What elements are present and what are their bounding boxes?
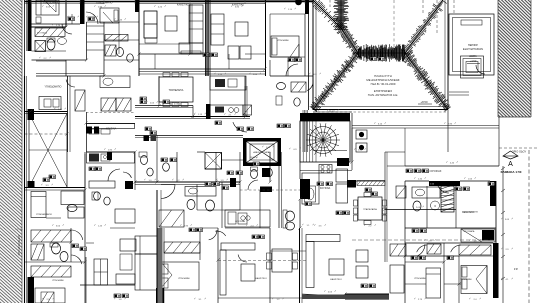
bed top-left: [36, 0, 59, 15]
shower top-left: [35, 41, 46, 52]
kitchen unit3 lower counter: [210, 105, 243, 117]
bottom-right unit: tub: [412, 187, 440, 198]
section marker A: [503, 151, 518, 159]
svg-text:+4.50: +4.50: [470, 59, 477, 63]
right boundary hatch band: [498, 0, 531, 117]
svg-text:A: A: [508, 161, 513, 168]
bathtub center: [185, 187, 216, 197]
loveseat unit3: [228, 46, 239, 59]
shower lower-left: [31, 244, 44, 260]
svg-text:ΕΞΩΤ ΕΡΓΑΣΙΩΝ: ΕΞΩΤ ΕΡΓΑΣΙΩΝ: [463, 47, 483, 51]
svg-text:20.05 μ²: 20.05 μ²: [250, 156, 258, 159]
bathtub top: [100, 76, 130, 88]
dark counter flecks unit below: [144, 136, 150, 142]
bed bottom-right-1: [426, 268, 441, 298]
svg-text:ΥΠΝΟΔΩΜ.: ΥΠΝΟΔΩΜ.: [414, 277, 426, 280]
dashed reference lines: [25, 133, 71, 135]
kitchen center counters: [87, 152, 135, 163]
sofa bottom-center-left: [135, 236, 157, 254]
svg-text:ΚΑΘΙΣΤΙΚΟ: ΚΑΘΙΣΤΙΚΟ: [462, 211, 474, 214]
vertical hatch wall strip: [158, 228, 163, 303]
hatch strip left-mid: [75, 90, 85, 111]
sofa unit3: [211, 14, 224, 45]
svg-text:ΠΕΡΙΦΡ.: ΠΕΡΙΦΡ.: [468, 43, 479, 47]
stair bulkhead on terrace: [449, 14, 494, 75]
table unit3: [235, 22, 248, 36]
table right of bottom-left: [120, 254, 132, 270]
washing items left of kitchen r: [286, 211, 295, 221]
hatch parallelogram bottom: [390, 244, 406, 256]
svg-text:ΥΠΝΟΔΩΜ.: ΥΠΝΟΔΩΜ.: [52, 279, 64, 282]
bath fixtures top-left unit: [47, 39, 55, 50]
hatch square mid-right: [396, 186, 406, 198]
svg-text:ΤΡΑΠΕΖΑΡΙΑ: ΤΡΑΠΕΖΑΡΙΑ: [363, 208, 377, 211]
svg-text:ΤΡΑΠΕΖΑΡΙΑ: ΤΡΑΠΕΖΑΡΙΑ: [169, 89, 184, 92]
glazing between units mid right: [302, 110, 304, 152]
svg-text:ΥΠΝΟΔΩΜ.: ΥΠΝΟΔΩΜ.: [277, 39, 289, 42]
svg-text:ΠΞΑ Β / 30-01-2009: ΠΞΑ Β / 30-01-2009: [371, 82, 396, 86]
seat bottom-left unit: [68, 207, 84, 218]
stairs top-right unit: [87, 25, 105, 27]
svg-text:1Ψ: 1Ψ: [514, 267, 519, 271]
bed top-mid: [271, 36, 299, 57]
svg-text:ΟΡΙΟ ΟΙΚΟΠΕΔΟΥ: ΟΡΙΟ ΟΙΚΟΠΕΔΟΥ: [18, 234, 21, 255]
corridor double walls center: [135, 137, 243, 139]
courtyard lines around elevator lobby: [221, 153, 223, 170]
shower unit2: [105, 45, 116, 56]
svg-text:ΥΠΝΟΔΩΜ.: ΥΠΝΟΔΩΜ.: [460, 278, 472, 281]
bed bottom-right-2: [461, 266, 487, 294]
top balcony rail lines: [139, 0, 313, 2]
svg-text:ΝΤΟΥΛΑΠΑ: ΝΤΟΥΛΑΠΑ: [37, 32, 48, 35]
terrace planters right of stair: [356, 130, 367, 139]
tag labels: [68, 17, 75, 21]
svg-text:ΚΑΘΙΣΤΙΚΟ: ΚΑΘΙΣΤΙΚΟ: [330, 278, 342, 281]
bottom-left closet wall: [70, 228, 72, 262]
wardrobe squares bottom-left: [94, 259, 108, 285]
big X lightwell left: [29, 114, 67, 188]
wc center: [251, 170, 258, 179]
bed bottom-center: [161, 262, 199, 290]
terrace long rails: [352, 125, 499, 127]
extra fixtures density center: [141, 156, 148, 165]
door arcs: [62, 24, 72, 34]
dashes top margin roof: [329, 0, 331, 8]
bottom-left unit bed: [31, 192, 46, 218]
svg-text:ΓΙΑΝ. ΑΝΤΩΝΑΤΟΣ Α.Ε.: ΓΙΑΝ. ΑΝΤΩΝΑΤΟΣ Α.Ε.: [368, 93, 399, 97]
svg-text:ΚΟΥΖΙΝΑ: ΚΟΥΖΙΝΑ: [320, 187, 331, 190]
interior walls: [65, 0, 67, 27]
table top-center: [165, 16, 177, 31]
svg-text:ΚΑΘΙΣΤΙΚΟ: ΚΑΘΙΣΤΙΚΟ: [255, 277, 267, 280]
kitchen unit3 top: [210, 76, 246, 90]
bath fixtures lower-left: [52, 243, 61, 254]
dimension lines right margin: [405, 127, 499, 129]
side tables top-left: [36, 17, 41, 23]
svg-text:ΥΠΝΟΔΩΜΑΤΙΟ: ΥΠΝΟΔΩΜΑΤΙΟ: [45, 86, 62, 89]
walls bottom-center: [197, 209, 240, 211]
wc lower center-left: [94, 192, 101, 200]
svg-text:ΚΛΙΜΑΚΑ 1:50: ΚΛΙΜΑΚΑ 1:50: [501, 170, 522, 174]
building outer walls: [25, 1, 314, 3]
black wall segments: [28, 0, 32, 51]
vertical cabinet: [189, 5, 203, 43]
sofa L top-center: [144, 11, 157, 38]
lightwell shaft: [205, 153, 222, 170]
dresser room2: [39, 97, 61, 110]
closet hatched top-left: [35, 28, 65, 37]
kitchen center-left: [87, 124, 135, 129]
closets kitchen unit2: [101, 98, 116, 111]
svg-text:ΚΟΥΖΙΝΑ: ΚΟΥΖΙΝΑ: [106, 128, 117, 131]
dining top-center: [159, 77, 193, 102]
closet slant center-bottom: [164, 242, 200, 253]
window sill hatch dining right: [357, 181, 385, 186]
svg-text:ΑΝΕΛΚΥΣΤΗΡΑΣ: ΑΝΕΛΚΥΣΤΗΡΑΣ: [253, 151, 271, 154]
small dimension ticks top: [30, 0, 32, 4]
glazing band top units: [205, 0, 207, 76]
junction tick marks: [64, 25, 67, 28]
svg-text:ΥΠΝΟΔΩΜΑΤΙΟ: ΥΠΝΟΔΩΜΑΤΙΟ: [43, 2, 60, 5]
kitchen right unit: [302, 173, 319, 204]
basins center bath: [187, 200, 195, 210]
glazing left edge double: [26, 76, 28, 303]
bed top-2: [100, 8, 119, 23]
balcony table bottom: [272, 249, 292, 272]
hatched rects center-bottom: [159, 210, 184, 227]
svg-text:ΝΤΟΥΛΑΠΑ: ΝΤΟΥΛΑΠΑ: [464, 230, 475, 233]
dining table right: [358, 197, 382, 220]
right unit mid walls: [387, 165, 405, 167]
svg-text:ΥΠΝΟΔΩΜ.: ΥΠΝΟΔΩΜ.: [178, 277, 190, 280]
more interior walls upper: [32, 23, 81, 25]
closet hatched unit2: [105, 35, 128, 42]
hatch square kitchen r: [243, 105, 252, 115]
bath fixtures mid top (279,82): [277, 83, 286, 90]
closet row lower-left 1: [31, 230, 71, 242]
closet top-bottom-right: [461, 229, 495, 242]
hatch rows bottom-right: [427, 244, 441, 254]
shower mid bath: [291, 82, 306, 92]
svg-text:ΚΑΘΙΣΤΙΚΟ: ΚΑΘΙΣΤΙΚΟ: [177, 4, 189, 7]
sofa L bottom-right-center: [306, 235, 340, 242]
spiral stair: [300, 121, 350, 162]
closet row lower-left 2: [31, 266, 71, 277]
island table right: [115, 209, 135, 223]
skylight box: [461, 56, 484, 78]
svg-text:+8.50: +8.50: [420, 100, 428, 104]
svg-text:ΚΟΥΖΙΝΑ: ΚΟΥΖΙΝΑ: [235, 220, 245, 223]
svg-text:ΥΠΝΟΔΩΜΑΤΙΟ: ΥΠΝΟΔΩΜΑΤΙΟ: [36, 213, 52, 216]
svg-text:+9.60: +9.60: [379, 48, 387, 52]
bed bottom-left: [35, 288, 65, 303]
balcony bottom slab: [302, 295, 389, 300]
walls bottom-right unit: [405, 255, 459, 257]
elevator shaft: [243, 138, 281, 166]
stair hatch right-bottom: [441, 184, 454, 212]
svg-text:Γ.77,5μ: Γ.77,5μ: [15, 229, 23, 231]
window double lines: [244, 86, 246, 117]
roof plan: [312, 0, 314, 110]
bath fixtures unit2: [117, 48, 124, 57]
kitchen bottom-center unit counters: [225, 210, 270, 227]
armchairs: [356, 250, 368, 262]
shelf+sofa bottom-center-right: [221, 243, 255, 250]
left boundary hatch band: [0, 0, 22, 303]
